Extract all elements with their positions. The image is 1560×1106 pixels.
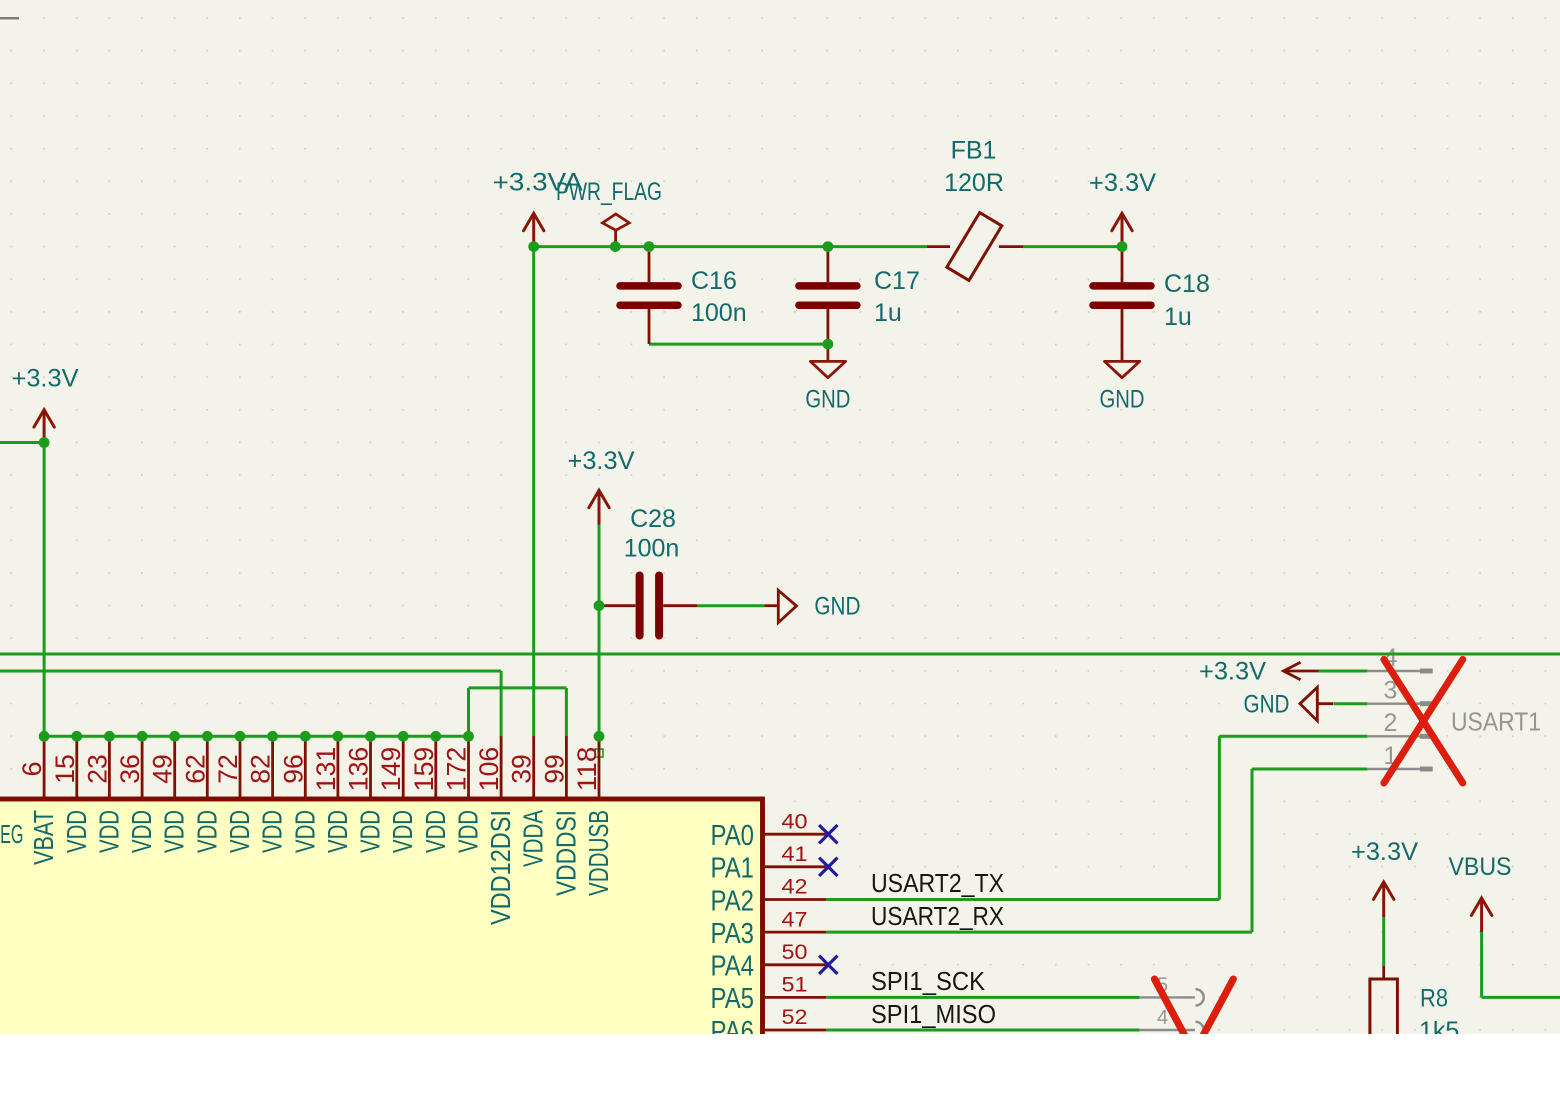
svg-text:VDD: VDD <box>420 810 451 853</box>
svg-text:USART2_RX: USART2_RX <box>871 901 1004 931</box>
wire SPI1_MISO from PA6 <box>826 1029 1140 1032</box>
junction +3.3VA <box>528 241 539 252</box>
svg-text:4: 4 <box>1157 1007 1168 1029</box>
wire full-width +3.3V rail <box>0 653 1560 656</box>
junction VDD bus pin 131 <box>333 731 344 742</box>
wire USART2_TX from PA2 <box>826 898 1219 901</box>
pin 106 VDD12DSI (top side) <box>500 736 503 801</box>
wire +3.3V rail overlay across USART1 <box>1340 653 1560 656</box>
capacitor C17 <box>799 286 857 305</box>
arrow +3.3VA <box>524 213 544 230</box>
junction VDD bus pin 136 <box>365 731 376 742</box>
arrow VBUS <box>1471 898 1491 915</box>
pin 50 PA4 (right side) <box>762 963 826 966</box>
svg-text:51: 51 <box>782 974 808 997</box>
no-connect X on PA0 <box>819 825 837 843</box>
pin 47 PA3 (right side) <box>762 931 826 934</box>
svg-text:C16: C16 <box>691 267 737 295</box>
svg-text:96: 96 <box>278 754 308 784</box>
svg-text:15: 15 <box>50 754 80 784</box>
wire left +3.3V down to VDD bus <box>43 443 46 737</box>
DNP red X over USART1 <box>1384 659 1463 783</box>
pin 99 VDDDSI (top side) <box>565 736 568 801</box>
svg-text:VDD: VDD <box>257 810 288 853</box>
svg-text:42: 42 <box>782 876 808 899</box>
capacitor C18 <box>1093 286 1151 305</box>
svg-text:172: 172 <box>442 747 472 792</box>
svg-text:GND: GND <box>805 385 850 413</box>
svg-text:C17: C17 <box>874 267 920 295</box>
gray mark top-left <box>0 17 19 20</box>
wire down to pin 99 VDDDSI <box>565 688 568 737</box>
pin 39 VDDA (top side) <box>532 736 535 801</box>
junction VDD bus pin 72 <box>235 731 246 742</box>
IC body STM32 MCU <box>0 799 763 1099</box>
svg-text:72: 72 <box>213 754 243 784</box>
wire +3.3VA down to pin 39 VDDA <box>532 247 535 737</box>
svg-text:106: 106 <box>474 747 504 792</box>
svg-text:136: 136 <box>344 747 374 792</box>
svg-text:VDD: VDD <box>453 810 484 853</box>
svg-text:49: 49 <box>148 754 178 784</box>
svg-text:118: 118 <box>572 747 602 792</box>
junction VDD bus pin 62 <box>202 731 213 742</box>
pin 172 VDD (top side) <box>467 736 470 801</box>
pin 6 VBAT (top side) <box>43 736 46 801</box>
global label +3.3V (USART1 pin4) <box>1284 662 1319 679</box>
wire C16 bottom to C17 bottom <box>649 343 828 346</box>
junction VDD bus pin 149 <box>398 731 409 742</box>
svg-text:100n: 100n <box>624 535 680 563</box>
svg-text:2: 2 <box>1384 709 1398 737</box>
wire USART1 pin2 down <box>1218 736 1221 899</box>
global label GND (C28) <box>765 604 779 607</box>
wire +3.3V to R8 <box>1382 917 1385 966</box>
svg-text:40: 40 <box>782 810 808 833</box>
junction VDD bus pin 6 <box>39 731 50 742</box>
svg-text:39: 39 <box>507 754 537 784</box>
arrow +3.3V R8 <box>1374 882 1394 899</box>
svg-text:FB1: FB1 <box>951 137 997 165</box>
junction C16 top <box>644 241 655 252</box>
svg-text:SPI1_SCK: SPI1_SCK <box>871 966 986 996</box>
stem +3.3VA <box>532 213 535 243</box>
wire left +3.3V horizontal <box>0 441 44 444</box>
unconnected wire end square at pin 118 <box>595 749 603 757</box>
svg-text:+3.3V: +3.3V <box>12 365 79 393</box>
wire bus up at pin 172 <box>467 688 470 736</box>
svg-text:23: 23 <box>82 754 112 784</box>
pin 72 VDD (top side) <box>239 736 242 801</box>
svg-text:VDDA: VDDA <box>518 810 549 867</box>
junction left +3.3V <box>39 437 50 448</box>
svg-text:1u: 1u <box>1164 303 1192 331</box>
svg-text:47: 47 <box>782 908 808 931</box>
wire USART2_RX from PA3 <box>826 931 1252 934</box>
junction +3.3V C18 <box>1117 241 1128 252</box>
wire +3.3VA rail top <box>534 245 927 248</box>
svg-text:USART1: USART1 <box>1451 707 1541 737</box>
svg-text:VDD: VDD <box>159 810 190 853</box>
pin 136 VDD (top side) <box>369 736 372 801</box>
pin 159 VDD (top side) <box>434 736 437 801</box>
junction VDD bus pin 36 <box>137 731 148 742</box>
svg-text:99: 99 <box>539 754 569 784</box>
resistor R8 <box>1382 966 1385 979</box>
svg-text:149: 149 <box>376 747 406 792</box>
svg-text:USART2_TX: USART2_TX <box>871 868 1004 898</box>
svg-text:VDD: VDD <box>387 810 418 853</box>
svg-text:VDD: VDD <box>61 810 92 853</box>
junction C17 top <box>823 241 834 252</box>
wire over to pin 99 <box>469 686 567 689</box>
SPI pin 5 <box>1140 996 1195 998</box>
junction VDD bus pin 23 <box>104 731 115 742</box>
wire USART1 pin1 down <box>1251 769 1254 932</box>
wire SPI1_SCK from PA5 <box>826 996 1140 999</box>
svg-text:PA0: PA0 <box>711 820 755 852</box>
wire USART1 pin1 <box>1252 768 1367 771</box>
wire USART1 pin2 <box>1219 735 1367 738</box>
ground under C17 <box>827 344 830 361</box>
svg-text:VDD: VDD <box>289 810 320 853</box>
svg-text:120R: 120R <box>944 169 1004 197</box>
pin 149 VDD (top side) <box>402 736 405 801</box>
FB1 left lead <box>927 245 950 248</box>
svg-text:VDD: VDD <box>322 810 353 853</box>
svg-text:VDD: VDD <box>191 810 222 853</box>
svg-text:1u: 1u <box>874 299 902 327</box>
svg-text:C18: C18 <box>1164 270 1210 298</box>
svg-text:+3.3V: +3.3V <box>1351 838 1418 866</box>
svg-text:+3.3V: +3.3V <box>1089 169 1156 197</box>
arrow +3.3V right <box>1112 213 1132 230</box>
SPI pin 4 <box>1140 1029 1195 1031</box>
USART1 pin 2 <box>1367 735 1429 737</box>
wire GND label to USART1 pin3 <box>1334 702 1367 705</box>
ground under C18 <box>1105 361 1140 377</box>
pin 15 VDD (top side) <box>75 736 78 801</box>
junction PWR_FLAG <box>610 241 621 252</box>
svg-text:50: 50 <box>782 941 808 964</box>
svg-text:C28: C28 <box>630 505 676 533</box>
wire mid +3.3V down to C28 <box>598 525 601 606</box>
capacitor C16 <box>620 286 678 305</box>
FB1 right lead <box>999 245 1023 248</box>
pin 40 PA0 (right side) <box>762 833 826 836</box>
pin 42 PA2 (right side) <box>762 898 826 901</box>
svg-text:VDD: VDD <box>126 810 157 853</box>
svg-text:VDD: VDD <box>224 810 255 853</box>
pin 41 PA1 (right side) <box>762 865 826 868</box>
wire C28 right to GND label <box>697 604 764 607</box>
svg-text:VDD: VDD <box>355 810 386 853</box>
wire VBUS to right edge <box>1482 996 1560 999</box>
svg-text:PA3: PA3 <box>711 918 755 950</box>
pin 96 VDD (top side) <box>304 736 307 801</box>
svg-text:PA2: PA2 <box>711 885 755 917</box>
wire C28 down to pin 118 VDDUSB <box>598 606 601 753</box>
svg-text:VDD: VDD <box>93 810 124 853</box>
svg-text:+3.3V: +3.3V <box>1199 658 1266 686</box>
capacitor C28 (horizontal) <box>640 576 660 636</box>
USART1 pin 1 <box>1367 768 1429 770</box>
svg-text:GND: GND <box>1100 385 1145 413</box>
USART1 pin 4 <box>1367 670 1429 672</box>
svg-text:+3.3V: +3.3V <box>568 447 635 475</box>
svg-text:PWR_FLAG: PWR_FLAG <box>556 178 662 206</box>
svg-text:REG: REG <box>0 819 24 849</box>
junction VDD bus pin 49 <box>169 731 180 742</box>
pin 49 VDD (top side) <box>173 736 176 801</box>
svg-text:62: 62 <box>180 754 210 784</box>
svg-text:131: 131 <box>311 747 341 792</box>
global label GND (USART1 pin3) <box>1300 687 1317 721</box>
USART1 pin 3 <box>1367 703 1429 705</box>
pin 52 PA6 (right side) <box>762 1029 826 1032</box>
junction C28 left <box>594 600 605 611</box>
svg-text:VBAT: VBAT <box>28 810 59 865</box>
junction VDD bus pin 96 <box>300 731 311 742</box>
junction VDD bus pin 172 <box>463 731 474 742</box>
junction pin 118 <box>594 731 605 742</box>
svg-text:PA1: PA1 <box>711 853 755 885</box>
wire +3.3V label to USART1 pin4 <box>1319 670 1368 673</box>
pin 62 VDD (top side) <box>206 736 209 801</box>
svg-text:159: 159 <box>409 747 439 792</box>
pin 118 VDDUSB (top side) <box>598 736 601 801</box>
svg-text:VDDUSB: VDDUSB <box>583 810 614 896</box>
svg-text:VDDDSI: VDDDSI <box>550 810 581 896</box>
DNP red X over SPI connector <box>1155 979 1234 1106</box>
pin 23 VDD (top side) <box>108 736 111 801</box>
junction VDD bus pin 15 <box>71 731 82 742</box>
arrow +3.3V left <box>34 410 54 427</box>
svg-text:36: 36 <box>115 754 145 784</box>
svg-text:VBUS: VBUS <box>1449 853 1512 881</box>
junction VDD bus pin 159 <box>430 731 441 742</box>
junction C17 bottom GND <box>823 339 834 350</box>
no-connect X on PA4 <box>819 956 837 974</box>
pin 82 VDD (top side) <box>271 736 274 801</box>
pin 131 VDD (top side) <box>336 736 339 801</box>
svg-text:100n: 100n <box>691 299 747 327</box>
junction VDD bus pin 82 <box>267 731 278 742</box>
svg-text:82: 82 <box>246 754 276 784</box>
wire pin 106 to left edge <box>0 670 501 673</box>
wire FB1 to +3.3V <box>1023 245 1122 248</box>
svg-text:GND: GND <box>1244 691 1290 719</box>
svg-text:R8: R8 <box>1420 985 1448 1013</box>
svg-text:SPI1_MISO: SPI1_MISO <box>871 999 996 1029</box>
pin 36 VDD (top side) <box>141 736 144 801</box>
stem PWR_FLAG <box>614 230 617 247</box>
svg-text:6: 6 <box>17 761 47 776</box>
svg-text:PA4: PA4 <box>711 951 755 983</box>
wire VDD bus <box>44 735 468 738</box>
svg-text:PA5: PA5 <box>711 983 755 1015</box>
svg-text:VDD12DSI: VDD12DSI <box>485 810 516 925</box>
svg-text:41: 41 <box>782 843 808 866</box>
no-connect X on PA1 <box>819 858 837 876</box>
wire pin 106 up <box>500 671 503 737</box>
svg-text:52: 52 <box>782 1006 808 1029</box>
pin 51 PA5 (right side) <box>762 996 826 999</box>
wire VBUS down <box>1480 932 1483 997</box>
svg-text:GND: GND <box>814 593 860 621</box>
arrow +3.3V middle <box>589 490 609 507</box>
